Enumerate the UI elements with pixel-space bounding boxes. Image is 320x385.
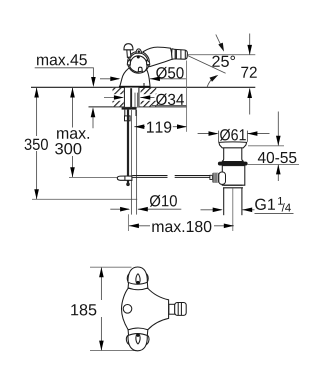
pop-up rod inside shank <box>130 88 132 107</box>
dimension 119 <box>147 121 171 132</box>
drain tailpipe <box>223 188 225 215</box>
plan top handle left wing <box>127 274 131 283</box>
shank tube below nut <box>124 110 126 116</box>
drain centerline <box>232 189 234 232</box>
handle center dot <box>137 56 140 59</box>
extension line from aerator <box>186 61 188 132</box>
faucet body side view <box>120 68 150 88</box>
handle left ear <box>127 60 130 65</box>
deck hatching right <box>141 88 157 107</box>
dimension diameter 50 <box>156 67 183 79</box>
dimension max.180 <box>152 221 211 232</box>
plan top handle dome <box>128 267 147 284</box>
horizontal pop-up linkage rod <box>132 175 167 177</box>
plan bottom handle collar <box>128 328 148 336</box>
rod clamp box <box>125 116 131 121</box>
cross handle mushroom knob <box>127 50 131 58</box>
lever housing <box>219 172 226 184</box>
plan top handle right wing <box>145 274 149 283</box>
dimension 350 <box>25 139 48 150</box>
handle inner skirt <box>130 56 147 72</box>
drain plug head <box>219 142 247 148</box>
dimension 25 degrees <box>212 56 235 67</box>
dimension max.45 <box>37 54 87 65</box>
deck bottom line <box>89 106 188 108</box>
dimension max.300 <box>57 130 89 139</box>
aerator ring <box>172 49 176 60</box>
dimension diameter 61 <box>220 129 246 141</box>
white gap for arrows through hatch <box>112 94 123 101</box>
handle right ear <box>147 60 150 64</box>
plan bottom handle slot <box>136 334 140 344</box>
mounting nut below deck <box>122 107 137 109</box>
faucet base band <box>119 86 150 88</box>
wire: max.300 bottom reference line <box>69 176 118 178</box>
dimension diameter 34 <box>156 93 184 105</box>
plan bottom handle left wing <box>126 335 130 345</box>
handle top knob <box>136 49 141 53</box>
pop-up rod <box>127 110 129 184</box>
drain body band <box>224 184 243 186</box>
spout side view <box>144 47 173 67</box>
plan top handle collar <box>128 282 148 290</box>
shank through deck <box>125 88 140 107</box>
handle escutcheon circle side view <box>128 51 150 73</box>
dimension G1 1/4 <box>255 199 275 210</box>
drain flange seal <box>218 162 248 166</box>
plan aerator <box>175 303 187 316</box>
drain neck <box>222 148 244 162</box>
knurled knob <box>210 175 213 179</box>
dimension 72 <box>241 67 256 78</box>
wire: 350 bottom reference line <box>32 198 137 200</box>
plan body <box>121 288 168 330</box>
plan bottom handle right wing <box>145 335 149 345</box>
aerator drum <box>175 49 187 59</box>
plan center circle <box>123 305 132 314</box>
deck hatching left <box>113 88 124 107</box>
dimension diameter 10 <box>150 195 177 207</box>
vertical lift rod tube <box>130 110 132 215</box>
linkage clamp <box>117 176 132 180</box>
dimension 185 <box>71 304 96 315</box>
plan top handle slot <box>136 274 140 284</box>
drain upper body <box>222 166 245 186</box>
plan bottom handle dome <box>128 334 147 351</box>
deck top line <box>31 86 255 88</box>
dimension 40-55 <box>258 152 296 163</box>
plan spout neck <box>169 304 175 314</box>
